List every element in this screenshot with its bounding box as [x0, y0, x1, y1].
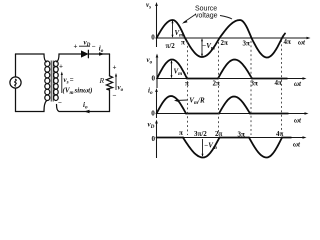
svg-text:−: −	[92, 42, 96, 50]
dashed gridline at pi	[187, 42, 189, 136]
plot4 dip1	[183, 138, 220, 158]
svg-text:π: π	[185, 80, 189, 88]
plot1 x-axis	[157, 37, 309, 39]
svg-text:3π: 3π	[243, 40, 251, 48]
svg-text:ωt: ωt	[294, 80, 302, 88]
svg-text:0: 0	[151, 33, 155, 41]
plot3 zero segments bold	[186, 113, 219, 115]
svg-text:0: 0	[151, 110, 155, 118]
svg-text:+: +	[113, 64, 117, 72]
plot4 dip2	[249, 138, 282, 158]
dashed gridline at 3pi	[250, 41, 252, 135]
wire bottom return	[57, 105, 110, 112]
plot2 Vm arrow	[171, 61, 173, 78]
wire primary bottom	[16, 101, 47, 112]
wire right branch upper	[109, 54, 111, 76]
plot1 -Vm arrow	[201, 39, 203, 56]
svg-text:voltage: voltage	[195, 13, 218, 20]
svg-text:R: R	[99, 76, 105, 85]
plot4 zero segment bold 3	[282, 137, 291, 139]
annotation line to second hump	[220, 16, 232, 20]
svg-text:+: +	[74, 43, 78, 51]
plot2 hump1	[157, 60, 187, 79]
arrow vo	[115, 75, 117, 90]
plot4 y-axis	[156, 122, 158, 158]
svg-text:π: π	[179, 129, 183, 137]
svg-text:2π: 2π	[221, 39, 229, 47]
wire primary left top	[15, 54, 17, 77]
svg-text:3π: 3π	[238, 131, 246, 139]
svg-text:3π/2: 3π/2	[194, 130, 207, 138]
transformer T1 core	[50, 61, 52, 102]
dashed gridline at 4pi	[281, 40, 283, 135]
svg-text:ωt: ωt	[294, 117, 302, 125]
plot2 x-axis	[157, 78, 304, 80]
svg-text:−: −	[58, 99, 62, 107]
plot1 y-axis	[156, 5, 158, 48]
diode D1	[81, 51, 88, 57]
plot1 sine curve	[157, 20, 286, 58]
arrow vs secondary	[61, 74, 63, 94]
ac source VS	[10, 77, 21, 88]
svg-text:4π: 4π	[275, 79, 283, 87]
wire diode to corner	[89, 53, 110, 55]
wire secondary top	[57, 54, 82, 62]
svg-text:−: −	[113, 92, 117, 100]
plot3 x-axis	[157, 113, 307, 115]
wire primary left bottom	[15, 88, 17, 111]
wire right branch lower	[109, 90, 111, 112]
svg-text:ωt: ωt	[298, 39, 306, 47]
plot2 zero segments bold	[187, 78, 218, 80]
svg-text:π: π	[181, 39, 185, 47]
current arrow io bottom	[84, 110, 90, 114]
plot4 zero segment bold 1	[157, 137, 184, 139]
transformer T1 primary winding	[45, 61, 50, 67]
svg-text:Source: Source	[195, 6, 217, 13]
svg-text:0: 0	[152, 75, 156, 83]
resistor R	[106, 76, 112, 90]
svg-text:+: +	[59, 63, 63, 71]
svg-text:4π: 4π	[284, 38, 292, 46]
plot4 x-axis	[157, 137, 305, 139]
svg-text:π/2: π/2	[166, 42, 176, 50]
plot3 hump2	[219, 97, 250, 114]
plot1 Vm arrow	[172, 21, 174, 37]
svg-text:4π: 4π	[276, 130, 284, 138]
plot3 y-axis	[156, 91, 158, 119]
annotation arrow to first hump	[184, 14, 197, 23]
plot3 hump1	[157, 96, 187, 114]
plot4 zero segment bold 2	[220, 137, 250, 139]
plot2 hump2	[218, 60, 252, 79]
svg-text:0: 0	[152, 135, 156, 143]
transformer T1 secondary winding	[54, 61, 59, 67]
dashed gridline at 2pi	[218, 42, 220, 135]
plot4 -Vm arrow	[202, 139, 204, 156]
svg-text:ωt: ωt	[293, 141, 301, 149]
current arrow io top	[99, 52, 105, 56]
plot2 y-axis	[156, 56, 158, 88]
svg-text:3π: 3π	[251, 80, 259, 88]
wire primary top	[16, 54, 47, 62]
